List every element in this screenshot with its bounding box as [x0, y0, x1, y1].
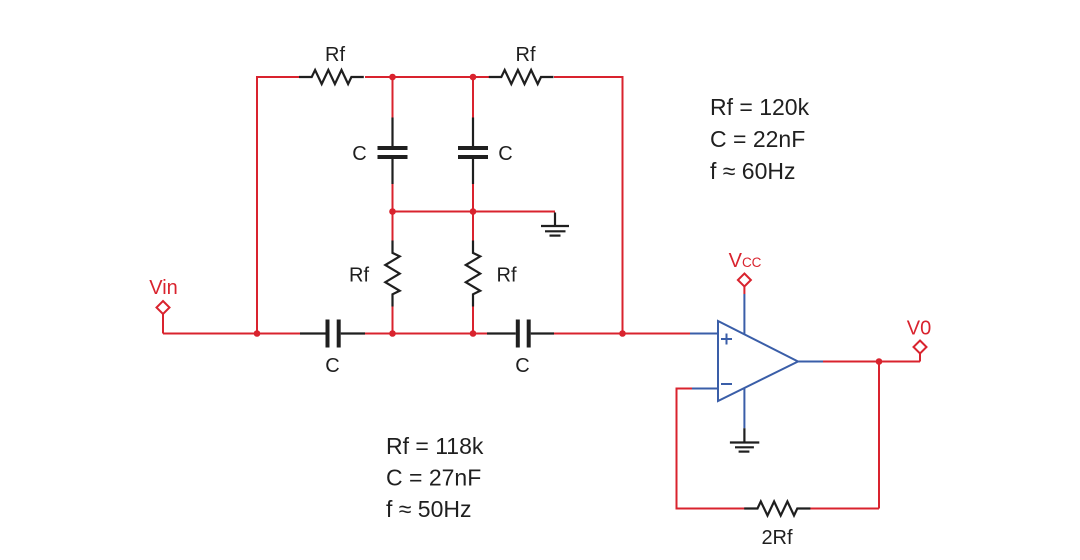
resistor Rf (top-right horizontal)	[489, 70, 554, 84]
svg-text:C: C	[515, 355, 529, 377]
svg-text:C: C	[325, 355, 339, 377]
node: junction input net branch 1	[389, 330, 396, 337]
svg-text:2Rf: 2Rf	[761, 527, 793, 549]
wire: top horizontal net (left segment)	[257, 76, 299, 78]
wire: Vcc stub red	[743, 287, 745, 295]
resistor Rf (right vertical)	[466, 241, 480, 307]
node: junction middle branch 1	[389, 208, 396, 215]
capacitor C (bottom-right horizontal)	[487, 320, 554, 348]
wire: bottom input net segments	[163, 333, 690, 335]
node: junction input net branch 2	[470, 330, 477, 337]
node: junction output net	[876, 358, 883, 365]
wire: inverting input lead (blue)	[692, 388, 718, 390]
svg-text:Vin: Vin	[149, 277, 178, 299]
wire: Vcc stub blue to op-amp	[743, 294, 745, 335]
wire: feedback right vertical	[878, 362, 880, 509]
terminal Vcc diamond	[738, 274, 751, 287]
svg-text:f ≈ 50Hz: f ≈ 50Hz	[386, 496, 472, 522]
capacitor C (right vertical)	[458, 118, 488, 185]
op-amp U1 triangle	[718, 321, 798, 401]
node: junction top branch 1	[389, 74, 396, 81]
wire: Vin stub	[162, 314, 164, 334]
svg-text:Rf = 120k: Rf = 120k	[710, 94, 810, 120]
op-amp plus sign	[721, 334, 732, 345]
resistor 2Rf (feedback)	[744, 502, 810, 516]
wire: op-amp ground stub blue	[743, 388, 745, 428]
capacitor C (bottom-left horizontal)	[300, 320, 365, 348]
wire: op-amp non-inverting input lead (blue)	[690, 333, 718, 335]
svg-text:Rf: Rf	[497, 265, 517, 287]
svg-text:Rf = 118k: Rf = 118k	[386, 433, 484, 459]
wire: inverting input red segment	[676, 388, 693, 390]
node: junction input net left	[254, 330, 261, 337]
resistor Rf (left vertical)	[385, 241, 399, 307]
wire: op-amp output lead (blue)	[798, 361, 823, 363]
wire: feedback left vertical	[676, 389, 678, 510]
wire: feedback bottom segments	[677, 508, 880, 510]
resistor Rf (top-left horizontal)	[299, 70, 364, 84]
wire: branch 2 vertical segments	[472, 77, 474, 334]
svg-text:C = 27nF: C = 27nF	[386, 465, 481, 491]
wire: top horizontal net (middle segment)	[365, 76, 489, 78]
svg-text:V0: V0	[907, 318, 931, 340]
capacitor C (left vertical)	[378, 118, 408, 185]
ground (op-amp)	[730, 428, 759, 451]
node: junction middle branch 2	[470, 208, 477, 215]
wire: top horizontal net (right segment)	[554, 76, 623, 78]
wire: right vertical from top net to input net	[622, 76, 624, 334]
svg-text:VCC: VCC	[729, 250, 762, 272]
svg-text:C: C	[498, 143, 512, 165]
op-amp minus sign	[721, 383, 732, 385]
svg-text:Rf: Rf	[349, 265, 369, 287]
svg-text:Rf: Rf	[325, 44, 345, 66]
wire: left vertical from top net to input net	[256, 76, 258, 334]
wire: middle horizontal net to ground	[393, 211, 556, 213]
wire: branch 1 vertical segments	[392, 77, 394, 334]
terminal V0 diamond	[914, 341, 927, 354]
wire: output net to V0	[823, 354, 920, 362]
node: junction input net right	[619, 330, 626, 337]
terminal Vin diamond	[157, 301, 170, 314]
svg-text:f ≈ 60Hz: f ≈ 60Hz	[710, 158, 796, 184]
svg-text:C = 22nF: C = 22nF	[710, 126, 805, 152]
svg-text:C: C	[352, 143, 366, 165]
svg-text:Rf: Rf	[516, 44, 536, 66]
ground (middle net)	[541, 213, 569, 236]
node: junction top branch 2	[470, 74, 477, 81]
